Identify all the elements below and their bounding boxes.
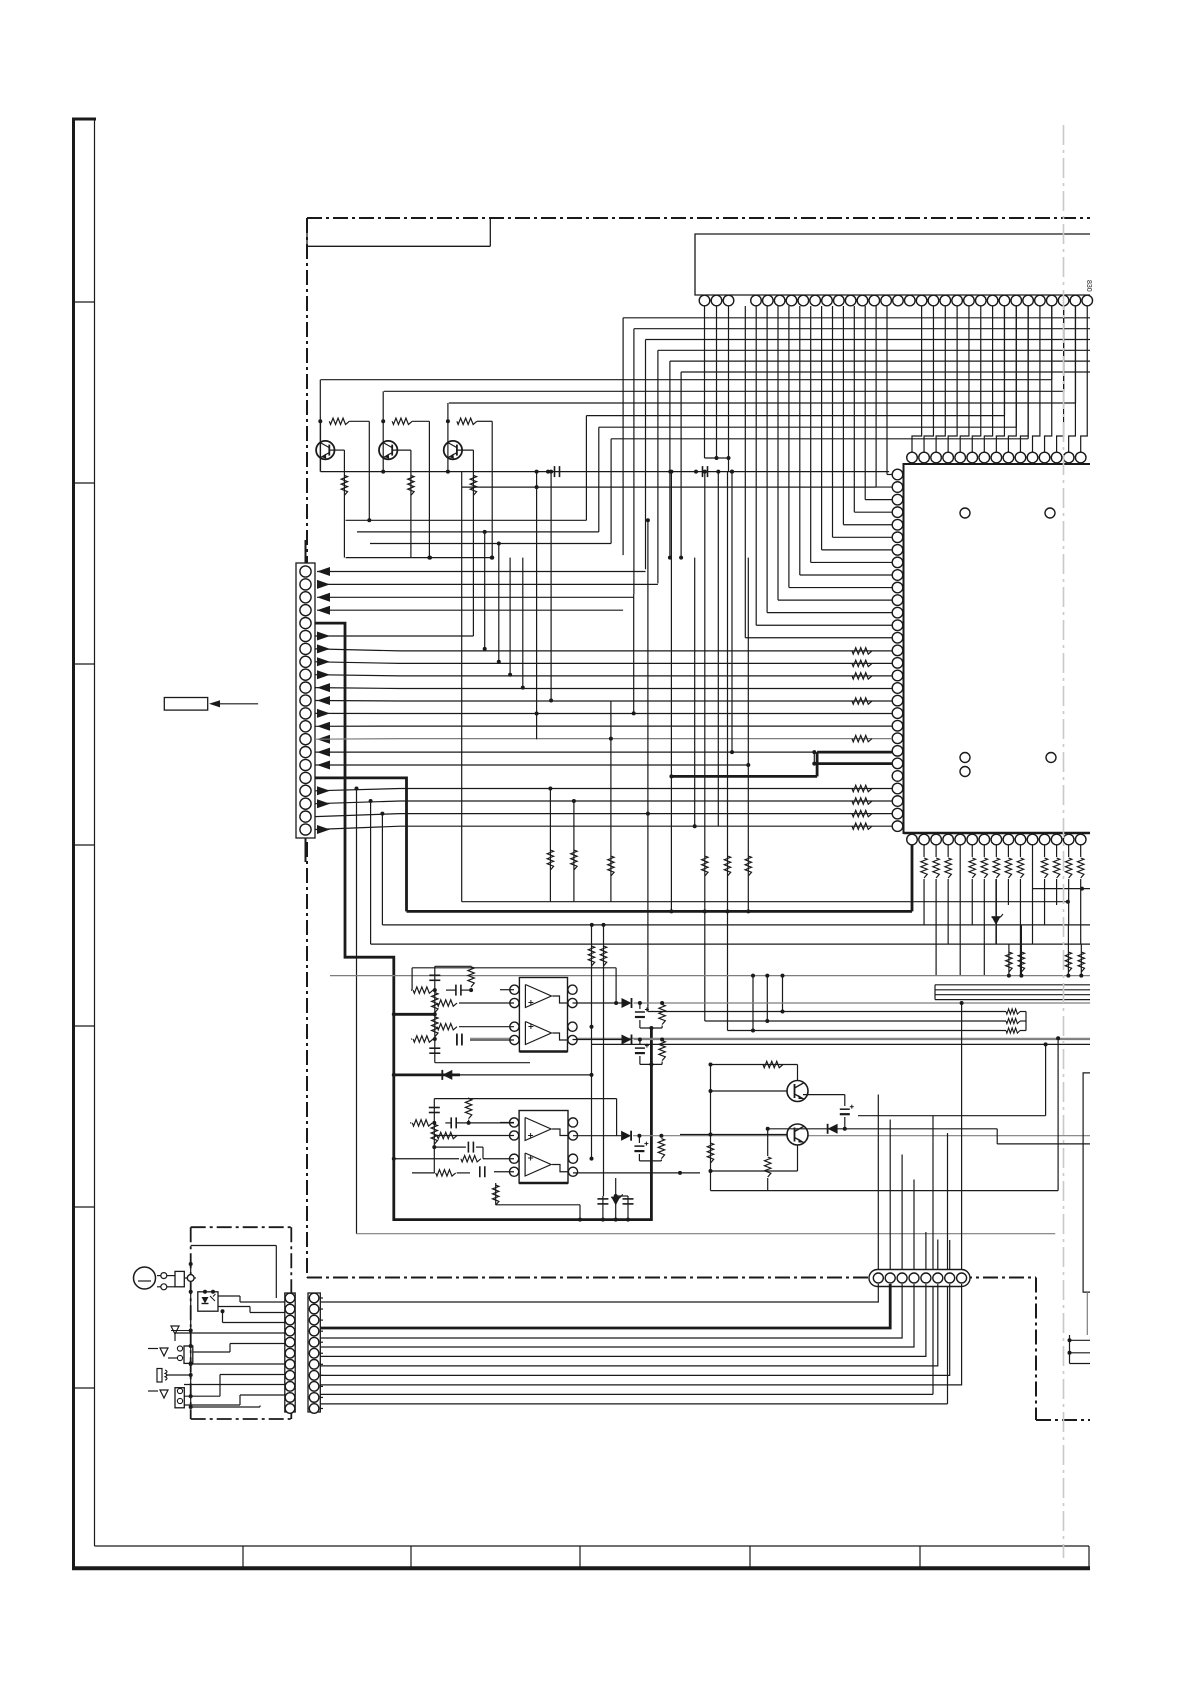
Q3 base stub [457,449,474,451]
Q5 base net [680,1134,787,1136]
IC3 top loop [434,1098,616,1100]
through columns [932,1116,934,1395]
resistor R31 [413,987,433,993]
resistor R21 emitter [341,475,347,495]
Q2 emitter column [410,450,412,557]
IC IC1 bottom pins [907,834,918,845]
Q5 emitter [797,1145,799,1171]
capacitor C42 polarized [639,1040,641,1046]
connector CN101 pins group B [751,295,762,306]
connector CN101 body [695,234,1090,295]
coil L1 [157,1369,162,1383]
column x710 [710,1065,712,1191]
capacitor C32 [456,1034,458,1045]
output rail C gray [633,1135,1090,1137]
page frame top cap [72,118,96,121]
through wire rails [320,1393,933,1395]
rail y1044 [592,1043,1091,1045]
long net to Q1 base ladder [321,379,1052,381]
connector CN201 stub top [305,540,307,563]
capacitor C11 on rail [554,466,556,477]
zener net bottom [601,1218,605,1222]
page frame inner left rule [94,118,96,1547]
right bottom stubs [1069,1335,1071,1364]
right box lower [1083,1073,1090,1292]
capacitor C12 on rail [702,466,704,477]
CN201 pin16 row [315,764,748,766]
capacitor C34 [467,1142,469,1153]
bus risers [622,318,624,555]
board boundary dash-dot bottom [307,1277,1036,1279]
CN201 pin17 thick drop [315,778,407,912]
test point label box [164,698,207,711]
resistor R12 base [392,418,412,424]
Q1 branch column [368,421,370,520]
Q3 branch column [491,421,493,557]
zener diode D11 [995,879,997,916]
IC2 top loop [435,965,471,967]
IC2 left RC network [434,966,436,1062]
connector CN402 body [308,1293,320,1412]
IC2 bottom loop [435,1062,530,1064]
op-amp IC2 triangle B [525,1022,551,1045]
long net to Q2 base ladder [384,390,1064,392]
thick stub rail 1014 [394,1013,435,1016]
resistor R42 [661,1039,663,1041]
connector CN201 stub bottom [305,838,307,862]
board boundary dash-dot left [306,218,308,1278]
capacitor C41 polarized [639,1003,641,1009]
op-amp output net A [573,1002,622,1004]
row drop risers [356,789,358,1234]
Q2 branch column [428,421,430,557]
emitter rail [321,471,890,473]
IC2 input nets [500,989,514,991]
resistor R22 emitter [408,475,414,495]
right bundle to edge [935,984,1090,986]
bus lines to right edge [623,317,1090,319]
diode D24 [621,1131,631,1141]
mid stair nets [586,415,1004,417]
connector CN401 pins [285,1293,295,1303]
connector CN301 pins [873,1273,883,1283]
resistor pair on columns [588,946,594,966]
connector CN402 pins [309,1293,319,1303]
Q3 collector column [447,403,449,472]
input board dash-dot boundary [190,1227,192,1419]
CN201 pin1-4 nets to stair [317,571,646,573]
CN402 long rails to CN301 [320,1297,323,1299]
riser x1058 [1057,1038,1059,1190]
rail y1190 [711,1190,1059,1192]
CN101 pinB columns to IC1 top pins [912,306,922,452]
motor M1 [134,1267,156,1289]
Q3 emitter column [472,450,474,636]
IC1 bottom pin columns [911,845,914,911]
rail lower link [346,557,492,559]
columns down from pin nets [549,789,551,902]
Q1 emitter column [343,450,345,557]
page frame outer left rule [72,118,75,1571]
transistor Q1 [316,441,334,459]
column nets mid [461,472,463,902]
IC IC1 left pins [892,469,903,480]
transistor Q3 [444,441,462,459]
IC3 bottom resistor R35 [495,1183,497,1205]
CN201 pin18-21 rows to IC resistors [315,789,892,791]
svg-text:830: 830 [1085,280,1092,292]
op-amp IC2 internal wiring [552,996,567,1003]
CN101 pinB columns to IC1 left stair [886,306,888,475]
transistor Q2 [379,441,397,459]
op-amp IC3 triangle A [525,1118,551,1141]
IC3 input nets [500,1121,514,1123]
op-amp IC3 internal wiring [552,1129,568,1136]
capacitor C43 polarized [638,1136,640,1143]
resistor R34 [436,1170,456,1176]
connector CN301 body [869,1270,970,1287]
op-amp IC3 triangle B [525,1153,551,1176]
output rail A gray [634,1002,1091,1004]
stair risers mid [484,532,486,649]
op-amp output net B [573,1039,622,1041]
CN201 pin15 row [315,751,814,753]
main bus input board [190,1256,192,1407]
page frame bottom inner rule [95,1545,1090,1547]
Q1 collector column [319,380,321,472]
transistor Q4 [787,1081,808,1102]
Q2 base stub [392,449,411,451]
IC1 thick pin nets [817,751,892,754]
gray rail y976 [330,975,1090,977]
resistor R13 base [457,418,477,424]
page frame fold ticks left [73,301,95,303]
stair horizontals to left connector region [346,519,587,521]
op-amp IC3 pins [509,1118,518,1127]
switch S1 [171,1326,179,1334]
diode D21 net thick [394,1074,460,1077]
IC2 feedback rail [412,967,616,969]
board boundary dash-dot top [307,217,1090,219]
Q2 collector column [382,391,384,471]
gray rail y1234 [357,1233,1056,1235]
CN201 pin6 net [315,635,473,637]
CN301 wire drops to left rails [320,1284,878,1302]
photocoupler PC1 [198,1292,218,1311]
op-amp IC2 pins [510,985,519,994]
motor contacts [161,1273,167,1279]
rail y925 [382,924,1090,926]
stub rail y888 [1032,888,1090,890]
op-amp IC2 body [519,978,567,1052]
resistor R11 base [329,418,349,424]
CN201 long input rows to IC1 [315,649,892,651]
CN201 arrows [317,567,330,576]
capacitor C51 polarized [844,1095,846,1106]
rail y944 [371,943,1090,945]
resistor R43 [660,1136,662,1138]
page centre fold line [1063,125,1065,1558]
switch S3 [177,1388,182,1393]
fuse F1 [175,1271,184,1286]
right step from D25 net [996,1129,998,1144]
diode D25 [768,1128,998,1130]
switch S2 block [177,1346,182,1351]
long net to Q3 base ladder [449,402,1076,404]
page frame bottom ticks [242,1546,244,1568]
IC IC1 top pins [907,452,918,463]
IC IC1 body [904,464,1091,833]
thick rail y911 [407,910,913,913]
board boundary dash-dot bottom-right step [1035,1278,1037,1421]
connector CN201 pins [300,566,311,577]
op-amp IC3 body [519,1111,568,1184]
transistor Q5 [787,1124,808,1145]
page frame bottom outer rule [72,1566,1090,1570]
connector CN101 pins group A [699,295,710,306]
CN201 pin5 thick ground net [315,623,651,1220]
connector CN201 body [296,563,315,838]
resistor R23 emitter [470,475,476,495]
resistor R41 [661,1002,663,1005]
CN201 pin14 gray row with resistor [315,738,892,741]
Q4 emitter net [803,1094,845,1096]
Q1 base stub [329,449,344,451]
op-amp IC2 triangle A [525,985,551,1008]
capacitor C31 [455,985,457,996]
rail to Q4 resistor [711,1064,798,1066]
gray rail y1038 [470,1037,1090,1039]
IC IC1 mounting holes [960,508,970,518]
diode D22 [622,998,632,1008]
riser x1045 [1045,1044,1047,1115]
IC3 left RC network [433,1099,435,1173]
Q4 base net [711,1090,788,1092]
capacitor C33 [450,1117,452,1128]
input board top wire [191,1245,277,1247]
row to IC pin2 [462,486,876,488]
resistor row above thick rail [702,856,708,876]
rail y902 [462,901,1068,903]
CN301 feeds from above [877,1095,879,1273]
connector CN401 body [285,1293,295,1412]
IC3 output net D [573,1172,700,1174]
IC1 pin19 column down [610,701,612,902]
diode D23 [622,1035,632,1045]
columns through op-amp area [591,925,593,1159]
triple resistors right [1006,1009,1020,1014]
output rail B gray [634,1039,1091,1041]
resistor R33 [412,1120,432,1126]
resistor R32 [413,1036,433,1042]
triple resistor risers [782,976,784,1012]
CN101 pinA wire drops [704,306,706,458]
right resistor drops to y976 [1008,944,1010,976]
test point arrow [216,703,258,705]
photocoupler wires [218,1295,240,1297]
op-amp output net C [573,1135,621,1137]
title sub-box top-left [306,218,308,246]
